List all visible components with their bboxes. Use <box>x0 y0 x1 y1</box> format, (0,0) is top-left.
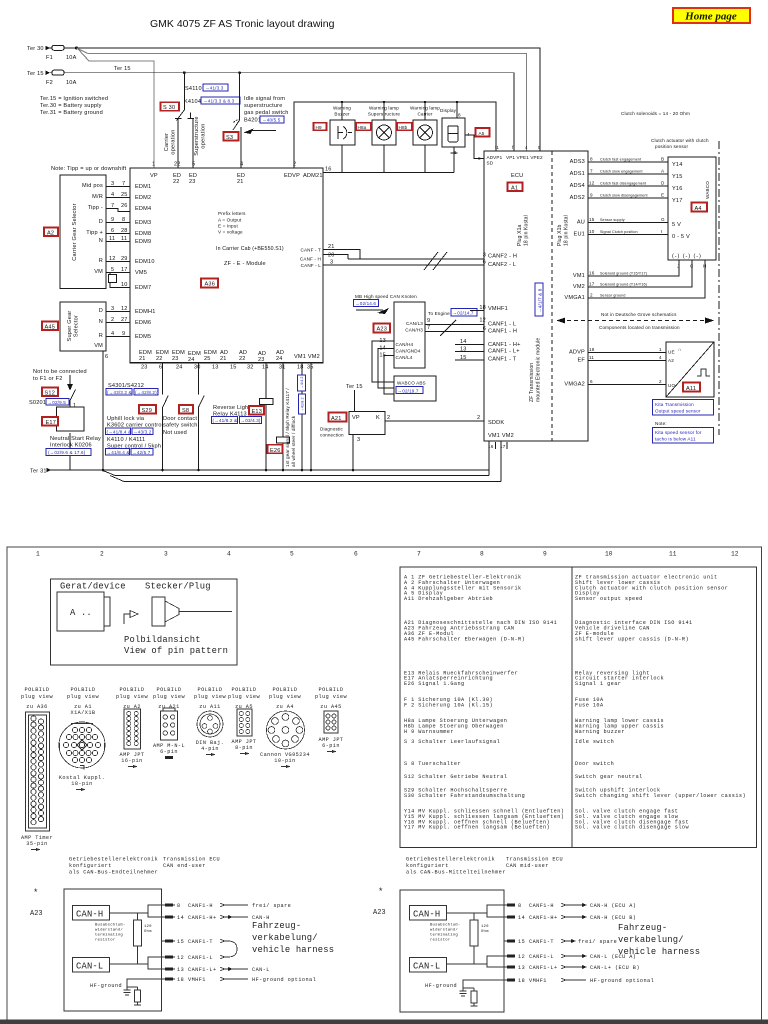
svg-text:1: 1 <box>36 551 40 558</box>
svg-text:4: 4 <box>111 331 114 337</box>
svg-text:16: 16 <box>589 271 595 276</box>
svg-text:ZF Transmission: ZF Transmission <box>529 363 535 402</box>
svg-text:V = voltage: V = voltage <box>218 230 243 235</box>
svg-text:→02/19.7: →02/19.7 <box>398 388 419 393</box>
svg-text:Solenoid ground (Y15/Y17): Solenoid ground (Y15/Y17) <box>600 272 647 276</box>
svg-text:21: 21 <box>139 356 146 362</box>
label A45 <box>42 322 58 331</box>
svg-text:Ohm: Ohm <box>481 929 489 934</box>
svg-text:Y17: Y17 <box>672 198 683 204</box>
svg-text:plug view: plug view <box>315 694 348 700</box>
node junction Ter30 branch <box>75 47 78 50</box>
svg-text:zu A4: zu A4 <box>276 704 294 710</box>
svg-text:EDM2: EDM2 <box>135 195 151 201</box>
svg-text:I: I <box>661 229 662 234</box>
svg-text:Switch gear neutral: Switch gear neutral <box>575 774 643 780</box>
svg-text:∩: ∩ <box>678 347 681 352</box>
connector A21 diagnostic <box>320 412 484 471</box>
sensor A11 output speed <box>666 342 714 397</box>
svg-text:A11 Drehzahlgeber Abtrieb: A11 Drehzahlgeber Abtrieb <box>404 596 493 602</box>
svg-text:K4104: K4104 <box>184 99 201 105</box>
svg-text:(→41/8.2 &: (→41/8.2 & <box>213 418 238 423</box>
svg-text:POLBILD: POLBILD <box>319 687 344 693</box>
node A23 right <box>373 887 386 917</box>
svg-text:7: 7 <box>111 203 114 209</box>
svg-text:CAN-L: CAN-L <box>252 967 270 973</box>
svg-text:Ter 15: Ter 15 <box>346 384 363 390</box>
svg-text:Y15: Y15 <box>672 174 683 180</box>
svg-text:22: 22 <box>174 162 181 168</box>
selector A2 box <box>60 175 106 288</box>
svg-text:VP1 VPE1 VPE2: VP1 VPE1 VPE2 <box>506 155 543 160</box>
svg-text:11: 11 <box>121 236 127 242</box>
svg-text:ZF - E - Module: ZF - E - Module <box>224 261 266 267</box>
CAN-L terminal <box>73 958 110 973</box>
svg-text:zu A21: zu A21 <box>158 704 179 710</box>
svg-text:7: 7 <box>590 169 593 174</box>
svg-text:18 pin Kostal: 18 pin Kostal <box>524 215 530 246</box>
selector A45 box <box>60 302 106 351</box>
svg-text:12: 12 <box>479 318 486 324</box>
svg-text:Busabschluß-: Busabschluß- <box>95 923 125 928</box>
svg-text:4-pin: 4-pin <box>201 746 219 752</box>
svg-text:Neutral Start Relay: Neutral Start Relay <box>50 436 101 442</box>
svg-text:→42/5.7: →42/5.7 <box>132 450 151 455</box>
wires solenoid grounds <box>564 260 705 301</box>
svg-text:→03/4.3): →03/4.3) <box>241 418 261 423</box>
svg-text:9: 9 <box>543 551 547 558</box>
svg-text:21: 21 <box>328 244 335 250</box>
svg-text:EDM8: EDM8 <box>135 231 151 237</box>
svg-text:3: 3 <box>111 306 114 312</box>
switch S12 <box>29 388 76 410</box>
svg-text:CANF - T: CANF - T <box>300 248 321 253</box>
svg-text:Ter.31 = Battery ground: Ter.31 = Battery ground <box>40 110 103 116</box>
switch S29 uphill lock <box>106 363 169 470</box>
svg-text:S 30: S 30 <box>163 105 175 111</box>
wire branch to A36 pin1 VP <box>79 50 155 169</box>
svg-text:3: 3 <box>111 181 114 187</box>
svg-text:To Engine: To Engine <box>428 311 450 316</box>
svg-text:Tipp -: Tipp - <box>88 205 103 211</box>
svg-text:18-pin: 18-pin <box>71 781 92 787</box>
svg-text:13: 13 <box>212 365 219 371</box>
svg-text:24: 24 <box>276 356 283 362</box>
svg-text:als CAN-Bus-Endteilnehmer: als CAN-Bus-Endteilnehmer <box>69 870 158 876</box>
svg-text:CANF1-T: CANF1-T <box>188 939 213 945</box>
svg-text:Note: Tipp = up or downshift: Note: Tipp = up or downshift <box>51 166 127 172</box>
svg-text:EDM7: EDM7 <box>135 285 151 291</box>
label MB high speed CAN <box>354 294 418 314</box>
svg-text:H8b: H8b <box>399 125 408 130</box>
svg-text:6: 6 <box>590 379 593 384</box>
svg-text:Fahrzeug-: Fahrzeug- <box>252 921 301 931</box>
svg-text:superstructure: superstructure <box>244 103 283 109</box>
svg-text:VM: VM <box>94 269 103 275</box>
svg-text:plug view: plug view <box>21 694 54 700</box>
svg-text:HF-ground: HF-ground <box>90 983 122 989</box>
module A36 ZF-E-Module box <box>130 162 323 363</box>
connector A11 4-pin <box>196 711 225 756</box>
svg-text:M/R: M/R <box>92 194 103 200</box>
connector A1 kostal 18-pin <box>59 722 105 791</box>
svg-text:A4: A4 <box>695 206 702 212</box>
label 1st gear rotated <box>285 388 296 467</box>
svg-text:A45 Fahrschalter Eberwagen (D: A45 Fahrschalter Eberwagen (D-N-R) <box>404 636 525 642</box>
svg-text:Polbildansicht: Polbildansicht <box>124 635 201 645</box>
svg-text:Uphill lock via: Uphill lock via <box>107 416 145 422</box>
svg-text:8-pin: 8-pin <box>235 745 253 751</box>
svg-text:E17: E17 <box>46 420 57 426</box>
svg-text:21: 21 <box>220 356 227 362</box>
svg-text:WABCO: WABCO <box>705 181 710 199</box>
svg-text:verkabelung/: verkabelung/ <box>618 935 684 945</box>
svg-text:S4110: S4110 <box>185 86 202 92</box>
wire Ter15 rail <box>27 66 514 151</box>
svg-text:→43/3.2: →43/3.2 <box>133 429 152 434</box>
svg-text:H 9 Warnsummer: H 9 Warnsummer <box>404 729 454 735</box>
wires ECU to A4 solenoids <box>570 157 668 238</box>
svg-text:ADM21: ADM21 <box>303 173 323 179</box>
label A1 <box>508 183 523 192</box>
svg-text:→41/8.4 &: →41/8.4 & <box>107 450 130 455</box>
label K4104 link <box>184 97 240 105</box>
svg-text:22: 22 <box>156 356 163 362</box>
svg-text:plug view: plug view <box>269 694 302 700</box>
svg-text:SDDK: SDDK <box>488 420 504 426</box>
svg-text:12: 12 <box>121 306 128 312</box>
wire lamp supply line <box>294 101 496 168</box>
svg-text:9: 9 <box>590 193 593 198</box>
svg-text:Kita speed sensor for: Kita speed sensor for <box>655 430 702 435</box>
svg-text:mounted Electronic module: mounted Electronic module <box>536 338 542 402</box>
svg-text:S29: S29 <box>142 408 153 414</box>
ECU left pin rows <box>455 253 521 363</box>
svg-text:CAN/L3: CAN/L3 <box>406 321 423 326</box>
svg-text:CANF1 - H+: CANF1 - H+ <box>488 342 521 348</box>
label CANF pins A36 <box>300 248 321 269</box>
svg-text:3: 3 <box>164 551 168 558</box>
connector A2 16-pin <box>120 709 145 768</box>
svg-text:POLBILD: POLBILD <box>157 687 182 693</box>
svg-text:2: 2 <box>659 379 662 384</box>
svg-text:CANF - L: CANF - L <box>301 263 322 268</box>
svg-text:zu A36: zu A36 <box>26 704 47 710</box>
svg-text:MB High speed CAN Knoten: MB High speed CAN Knoten <box>355 294 417 299</box>
svg-text:4: 4 <box>240 162 243 168</box>
svg-text:31: 31 <box>279 365 286 371</box>
svg-text:25: 25 <box>121 192 128 198</box>
svg-text:vehicle harness: vehicle harness <box>618 947 700 957</box>
svg-text:11: 11 <box>669 551 677 558</box>
svg-text:5: 5 <box>111 267 114 273</box>
svg-text:VM1 VM2: VM1 VM2 <box>488 433 514 439</box>
svg-text:Ter 31: Ter 31 <box>30 469 47 475</box>
svg-text:→4/1/7 & 8: →4/1/7 & 8 <box>538 288 543 313</box>
svg-text:f1: f1 <box>495 145 499 150</box>
svg-text:E26 Signal 1.Gang: E26 Signal 1.Gang <box>404 681 465 687</box>
label clutch actuator note <box>651 138 709 149</box>
svg-text:23: 23 <box>258 357 265 363</box>
svg-text:A36: A36 <box>205 282 216 288</box>
page footer bar <box>0 1020 768 1024</box>
svg-text:Mid pos: Mid pos <box>82 183 103 189</box>
svg-text:2: 2 <box>100 551 104 558</box>
svg-text:*: * <box>378 887 383 897</box>
svg-text:6-pin: 6-pin <box>160 749 178 755</box>
svg-text:In Carrier Cab (+BE550.S1): In Carrier Cab (+BE550.S1) <box>216 246 284 252</box>
svg-text:A45: A45 <box>45 325 56 331</box>
svg-text:10: 10 <box>121 282 128 288</box>
wire VM2 pin35 down <box>310 363 312 470</box>
node A23 left <box>30 888 43 918</box>
svg-text:13: 13 <box>518 965 525 971</box>
CAN mid-user diagram header <box>406 857 563 876</box>
svg-text:S30 Schalter Fahrstandsumscha: S30 Schalter Fahrstandsumschaltung <box>404 793 525 799</box>
svg-text:A11: A11 <box>686 386 696 392</box>
svg-text:S 8 Tuerschalter: S 8 Tuerschalter <box>404 761 461 767</box>
svg-text:18: 18 <box>589 347 595 352</box>
svg-text:12: 12 <box>109 256 116 262</box>
svg-text:23: 23 <box>189 179 196 185</box>
svg-text:10: 10 <box>589 229 595 234</box>
svg-text:terminating: terminating <box>430 933 458 938</box>
svg-text:EDVP: EDVP <box>284 173 300 179</box>
terminal legend <box>40 96 108 116</box>
svg-text:24: 24 <box>176 365 183 371</box>
svg-text:16: 16 <box>325 167 332 173</box>
pin lines CAN end-user <box>162 903 335 983</box>
svg-text:9: 9 <box>478 156 481 161</box>
svg-text:S 3 Schalter Leerlaufsignal: S 3 Schalter Leerlaufsignal <box>404 739 500 745</box>
svg-text:VP: VP <box>150 173 158 179</box>
svg-text:2: 2 <box>111 317 114 323</box>
connector A4 10-pin <box>260 711 310 768</box>
ECU box CAN end-user <box>64 889 162 1011</box>
svg-text:connection: connection <box>320 433 344 438</box>
svg-text:Sol. valve clutch disengage sl: Sol. valve clutch disengage slow <box>575 825 689 831</box>
svg-text:29: 29 <box>121 256 128 262</box>
module A23 CAN node <box>379 302 430 368</box>
svg-text:(→43/3.2 &: (→43/3.2 & <box>107 390 132 395</box>
svg-text:A = Output: A = Output <box>218 218 242 223</box>
svg-text:8: 8 <box>480 551 484 558</box>
svg-text:VM5: VM5 <box>135 270 147 276</box>
svg-text:Fuse 10A: Fuse 10A <box>575 702 604 708</box>
switch S3 idle <box>224 71 277 168</box>
svg-text:Not in Deutsche Grove schemati: Not in Deutsche Grove schematics <box>601 312 677 317</box>
svg-text:CAN/GND4: CAN/GND4 <box>396 349 421 354</box>
svg-text:Ter 30: Ter 30 <box>27 46 44 52</box>
svg-text:20: 20 <box>328 253 335 259</box>
svg-text:CANF1-L: CANF1-L <box>529 954 554 960</box>
svg-text:CANF1-T: CANF1-T <box>529 939 554 945</box>
svg-text:R: R <box>99 333 103 339</box>
svg-text:Prefix letters: Prefix letters <box>218 211 246 216</box>
svg-text:→41/3.3 & 8.3: →41/3.3 & 8.3 <box>203 99 235 104</box>
svg-text:H8a: H8a <box>358 125 367 130</box>
svg-text:D: D <box>661 181 665 186</box>
lamp H8b carrier <box>397 102 440 173</box>
svg-text:plug view: plug view <box>228 694 261 700</box>
wire Ter31 bus <box>30 468 501 482</box>
svg-text:Ter 15: Ter 15 <box>114 66 131 72</box>
svg-text:UE: UE <box>668 350 675 355</box>
wire Ter30 rail <box>27 46 540 151</box>
svg-text:5: 5 <box>290 551 294 558</box>
svg-text:CAN/L4: CAN/L4 <box>396 355 413 360</box>
svg-text:CAN-H (ECU B): CAN-H (ECU B) <box>590 915 636 921</box>
svg-text:Reverse Light: Reverse Light <box>213 405 250 411</box>
svg-text:VM1: VM1 <box>573 273 585 279</box>
connector A45 6-pin <box>319 711 344 753</box>
legend table frame <box>400 567 757 848</box>
label idle signal note <box>244 96 289 124</box>
label A2 <box>44 228 58 237</box>
svg-text:N: N <box>99 238 103 244</box>
wire branch to ECU pin4 <box>77 48 527 151</box>
svg-text:operation: operation <box>171 129 177 154</box>
svg-text:(→41/8.4 &: (→41/8.4 & <box>107 429 132 434</box>
svg-text:23: 23 <box>172 356 179 362</box>
svg-text:Signal 1 gear: Signal 1 gear <box>575 681 621 687</box>
svg-text:5 V: 5 V <box>672 222 681 228</box>
svg-text:Not used: Not used <box>163 430 187 436</box>
svg-text:D: D <box>99 219 103 225</box>
wire to plug <box>124 614 130 624</box>
svg-text:CAN-L: CAN-L <box>76 962 103 972</box>
svg-text:35-pin: 35-pin <box>26 841 47 847</box>
svg-text:Output speed sensor: Output speed sensor <box>655 409 701 414</box>
svg-text:to F1 or F2: to F1 or F2 <box>33 376 63 382</box>
svg-text:5: 5 <box>192 162 195 168</box>
svg-text:CANF1 - H: CANF1 - H <box>488 329 517 335</box>
svg-text:POLBILD: POLBILD <box>120 687 145 693</box>
svg-text:EU1: EU1 <box>574 232 585 238</box>
svg-text:23: 23 <box>141 365 148 371</box>
device symbol <box>57 592 104 631</box>
svg-text:ADS4: ADS4 <box>570 183 585 189</box>
svg-text:22: 22 <box>239 356 246 362</box>
svg-text:→41/3.3: →41/3.3 <box>205 86 224 91</box>
svg-text:25: 25 <box>204 356 211 362</box>
svg-text:6: 6 <box>354 551 358 558</box>
svg-text:→02/9.5: →02/9.5 <box>48 400 67 405</box>
svg-text:18: 18 <box>518 978 525 984</box>
svg-text:CANF - H: CANF - H <box>300 257 321 262</box>
svg-text:Diagnostic: Diagnostic <box>320 427 344 432</box>
svg-text:→02/14.7: →02/14.7 <box>453 311 474 316</box>
svg-text:32: 32 <box>247 365 254 371</box>
svg-text:gas pedal switch: gas pedal switch <box>244 110 289 116</box>
svg-text:EDM5: EDM5 <box>135 334 151 340</box>
svg-text:CAN-L+ (ECU B): CAN-L+ (ECU B) <box>590 965 640 971</box>
svg-text:POLBILD: POLBILD <box>273 687 298 693</box>
home page button <box>673 8 750 23</box>
svg-text:Sensor supply: Sensor supply <box>600 218 625 222</box>
svg-text:6: 6 <box>111 228 114 234</box>
svg-text:Clutch solenoids = 14 - 20 Ohm: Clutch solenoids = 14 - 20 Ohm <box>621 111 690 116</box>
note not to be connected <box>33 369 87 391</box>
connector A5 8-pin <box>232 709 257 755</box>
polbild headers <box>21 687 348 716</box>
label A36 <box>201 279 218 288</box>
pin lines CAN mid-user <box>504 903 700 984</box>
svg-text:CANF1-L+: CANF1-L+ <box>188 967 217 973</box>
svg-text:4: 4 <box>659 355 662 360</box>
svg-text:24: 24 <box>188 357 195 363</box>
svg-text:9: 9 <box>122 331 125 337</box>
svg-text:HF-ground optional: HF-ground optional <box>590 978 654 984</box>
svg-text:Clutch fast engagement: Clutch fast engagement <box>600 158 641 162</box>
svg-text:6-pin: 6-pin <box>322 743 340 749</box>
svg-text:17: 17 <box>589 282 595 287</box>
svg-text:2: 2 <box>293 162 296 168</box>
svg-text:Clutch slow disengagement: Clutch slow disengagement <box>600 194 648 198</box>
svg-text:(→02/9.6 & 17.6): (→02/9.6 & 17.6) <box>48 450 86 455</box>
svg-text:4: 4 <box>467 132 470 137</box>
svg-text:Carrier Gear Selector: Carrier Gear Selector <box>72 203 78 260</box>
wires A23 to WABCO <box>372 341 394 394</box>
svg-text:Warning: Warning <box>333 106 351 111</box>
svg-text:ADS1: ADS1 <box>570 171 585 177</box>
svg-text:Getriebestellerelektronik: Getriebestellerelektronik <box>69 857 158 863</box>
svg-text:Transmission ECU: Transmission ECU <box>163 857 220 863</box>
svg-text:Warning lamp: Warning lamp <box>410 106 440 111</box>
svg-text:Sensor output speed: Sensor output speed <box>575 596 643 602</box>
wire A45 VM to Ter31 bus <box>103 351 108 470</box>
svg-text:E26: E26 <box>270 448 281 454</box>
svg-text:8: 8 <box>590 157 593 162</box>
svg-text:VMHF1: VMHF1 <box>488 306 508 312</box>
svg-text:EDM9: EDM9 <box>135 239 151 245</box>
svg-text:6: 6 <box>105 354 108 360</box>
ruler numbers <box>36 551 739 558</box>
svg-text:Plug X1b: Plug X1b <box>557 224 563 246</box>
label Kita transmission <box>653 400 714 416</box>
ECU box CAN mid-user <box>400 890 504 1012</box>
svg-text:A: A <box>661 169 665 174</box>
svg-text:CANF2 - H: CANF2 - H <box>488 254 517 260</box>
svg-text:Plug X1a: Plug X1a <box>517 224 523 246</box>
svg-text:CAN mid-user: CAN mid-user <box>506 863 549 869</box>
svg-text:12: 12 <box>589 181 595 186</box>
svg-text:3: 3 <box>483 253 486 259</box>
svg-text:konfiguriert: konfiguriert <box>69 863 112 869</box>
svg-text:K4110 / K4111: K4110 / K4111 <box>107 437 145 443</box>
svg-text:Getriebestellerelektronik: Getriebestellerelektronik <box>406 857 495 863</box>
A36 left pin labels <box>135 184 156 340</box>
svg-text:CAN-H (ECU A): CAN-H (ECU A) <box>590 903 636 909</box>
CAN end-user diagram header <box>69 857 220 876</box>
svg-text:CANF1 - T: CANF1 - T <box>488 357 517 363</box>
svg-text:Carrier: Carrier <box>164 133 170 152</box>
connector A21 6-pin <box>153 708 185 759</box>
svg-text:UO: UO <box>668 383 675 388</box>
svg-text:11: 11 <box>589 355 594 360</box>
svg-text:S12: S12 <box>45 391 56 397</box>
svg-text:2: 2 <box>477 415 480 421</box>
svg-text:F1: F1 <box>46 55 53 61</box>
svg-text:HF-ground optional: HF-ground optional <box>252 977 316 983</box>
svg-text:Idle signal from: Idle signal from <box>244 96 285 102</box>
svg-text:18 pin Kostal: 18 pin Kostal <box>564 215 570 246</box>
svg-text:30: 30 <box>194 365 201 371</box>
svg-text:10-pin: 10-pin <box>274 758 295 764</box>
svg-text:POLBILD: POLBILD <box>232 687 257 693</box>
svg-text:plug view: plug view <box>67 694 100 700</box>
svg-text:Idle switch: Idle switch <box>575 739 614 745</box>
